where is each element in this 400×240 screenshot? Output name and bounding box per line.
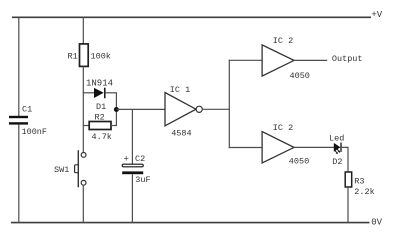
switch SW1 (75, 150, 86, 187)
svg-text:1N914: 1N914 (86, 79, 113, 89)
wire R1 to diode junction (82, 66, 84, 152)
svg-text:C2: C2 (135, 154, 145, 164)
wire top buffer output (294, 59, 327, 61)
svg-text:4050: 4050 (290, 71, 310, 81)
svg-text:IC 1: IC 1 (170, 85, 190, 95)
svg-text:SW1: SW1 (54, 165, 69, 175)
wire to top buffer input (229, 59, 262, 61)
svg-text:100nF: 100nF (22, 127, 48, 137)
svg-text:Output: Output (332, 54, 363, 64)
wire bottom rail 0V (11, 222, 370, 224)
svg-text:3uF: 3uF (135, 175, 150, 185)
resistor R3 (345, 172, 352, 187)
svg-text:D2: D2 (332, 157, 342, 167)
svg-text:2.2k: 2.2k (354, 187, 374, 197)
svg-text:100k: 100k (91, 52, 111, 62)
buffer U2b IC2 bottom triangle (262, 132, 294, 163)
wire top rail +V (12, 16, 371, 18)
svg-text:IC 2: IC 2 (273, 123, 293, 133)
svg-text:Led: Led (329, 134, 344, 144)
diode D2 LED (334, 143, 341, 155)
wire bottom buffer output to LED (294, 146, 334, 148)
buffer U2a IC2 top triangle (262, 45, 294, 76)
wire R2 right lead (111, 125, 117, 127)
svg-text:4050: 4050 (289, 157, 309, 167)
capacitor C2 polarized (122, 164, 143, 174)
wire R3 to bottom rail (347, 187, 349, 223)
wire to bottom buffer input (229, 147, 262, 149)
resistor R2 (89, 122, 111, 130)
wire D1 anode (83, 92, 95, 94)
wire node A to IC1 input (116, 108, 165, 110)
wire C2 branch from node wire (131, 109, 133, 164)
node A junction dot (114, 107, 119, 112)
wire branch vertical (228, 60, 230, 148)
svg-text:4584: 4584 (171, 128, 191, 138)
svg-text:D1: D1 (96, 102, 106, 112)
wire LED to R3 corner (341, 147, 348, 172)
svg-text:C1: C1 (22, 105, 32, 115)
wire C2 bottom to rail (131, 174, 133, 222)
capacitor C1 (9, 116, 28, 125)
svg-text:+V: +V (371, 10, 382, 20)
resistor R1 (80, 44, 89, 67)
svg-text:IC 2: IC 2 (273, 36, 293, 46)
node IC1 inversion bubble (196, 106, 202, 112)
op-amp U1 inverter IC1 triangle (165, 93, 196, 126)
svg-text:+: + (124, 155, 129, 165)
svg-text:0V: 0V (371, 218, 382, 228)
wire R1 branch top (82, 17, 84, 44)
svg-text:4.7k: 4.7k (92, 132, 112, 142)
wire C1 branch top (18, 17, 20, 116)
svg-text:R3: R3 (354, 176, 364, 186)
wire SW1 bottom to rail (82, 185, 84, 222)
wire C1 branch bottom (18, 124, 20, 222)
wire IC1 output (202, 108, 230, 110)
svg-text:R1: R1 (68, 51, 78, 61)
wire D1 cathode (105, 92, 117, 94)
diode D1 (94, 88, 105, 99)
wire loop right vertical (115, 93, 117, 126)
wire R2 left lead (83, 125, 90, 127)
